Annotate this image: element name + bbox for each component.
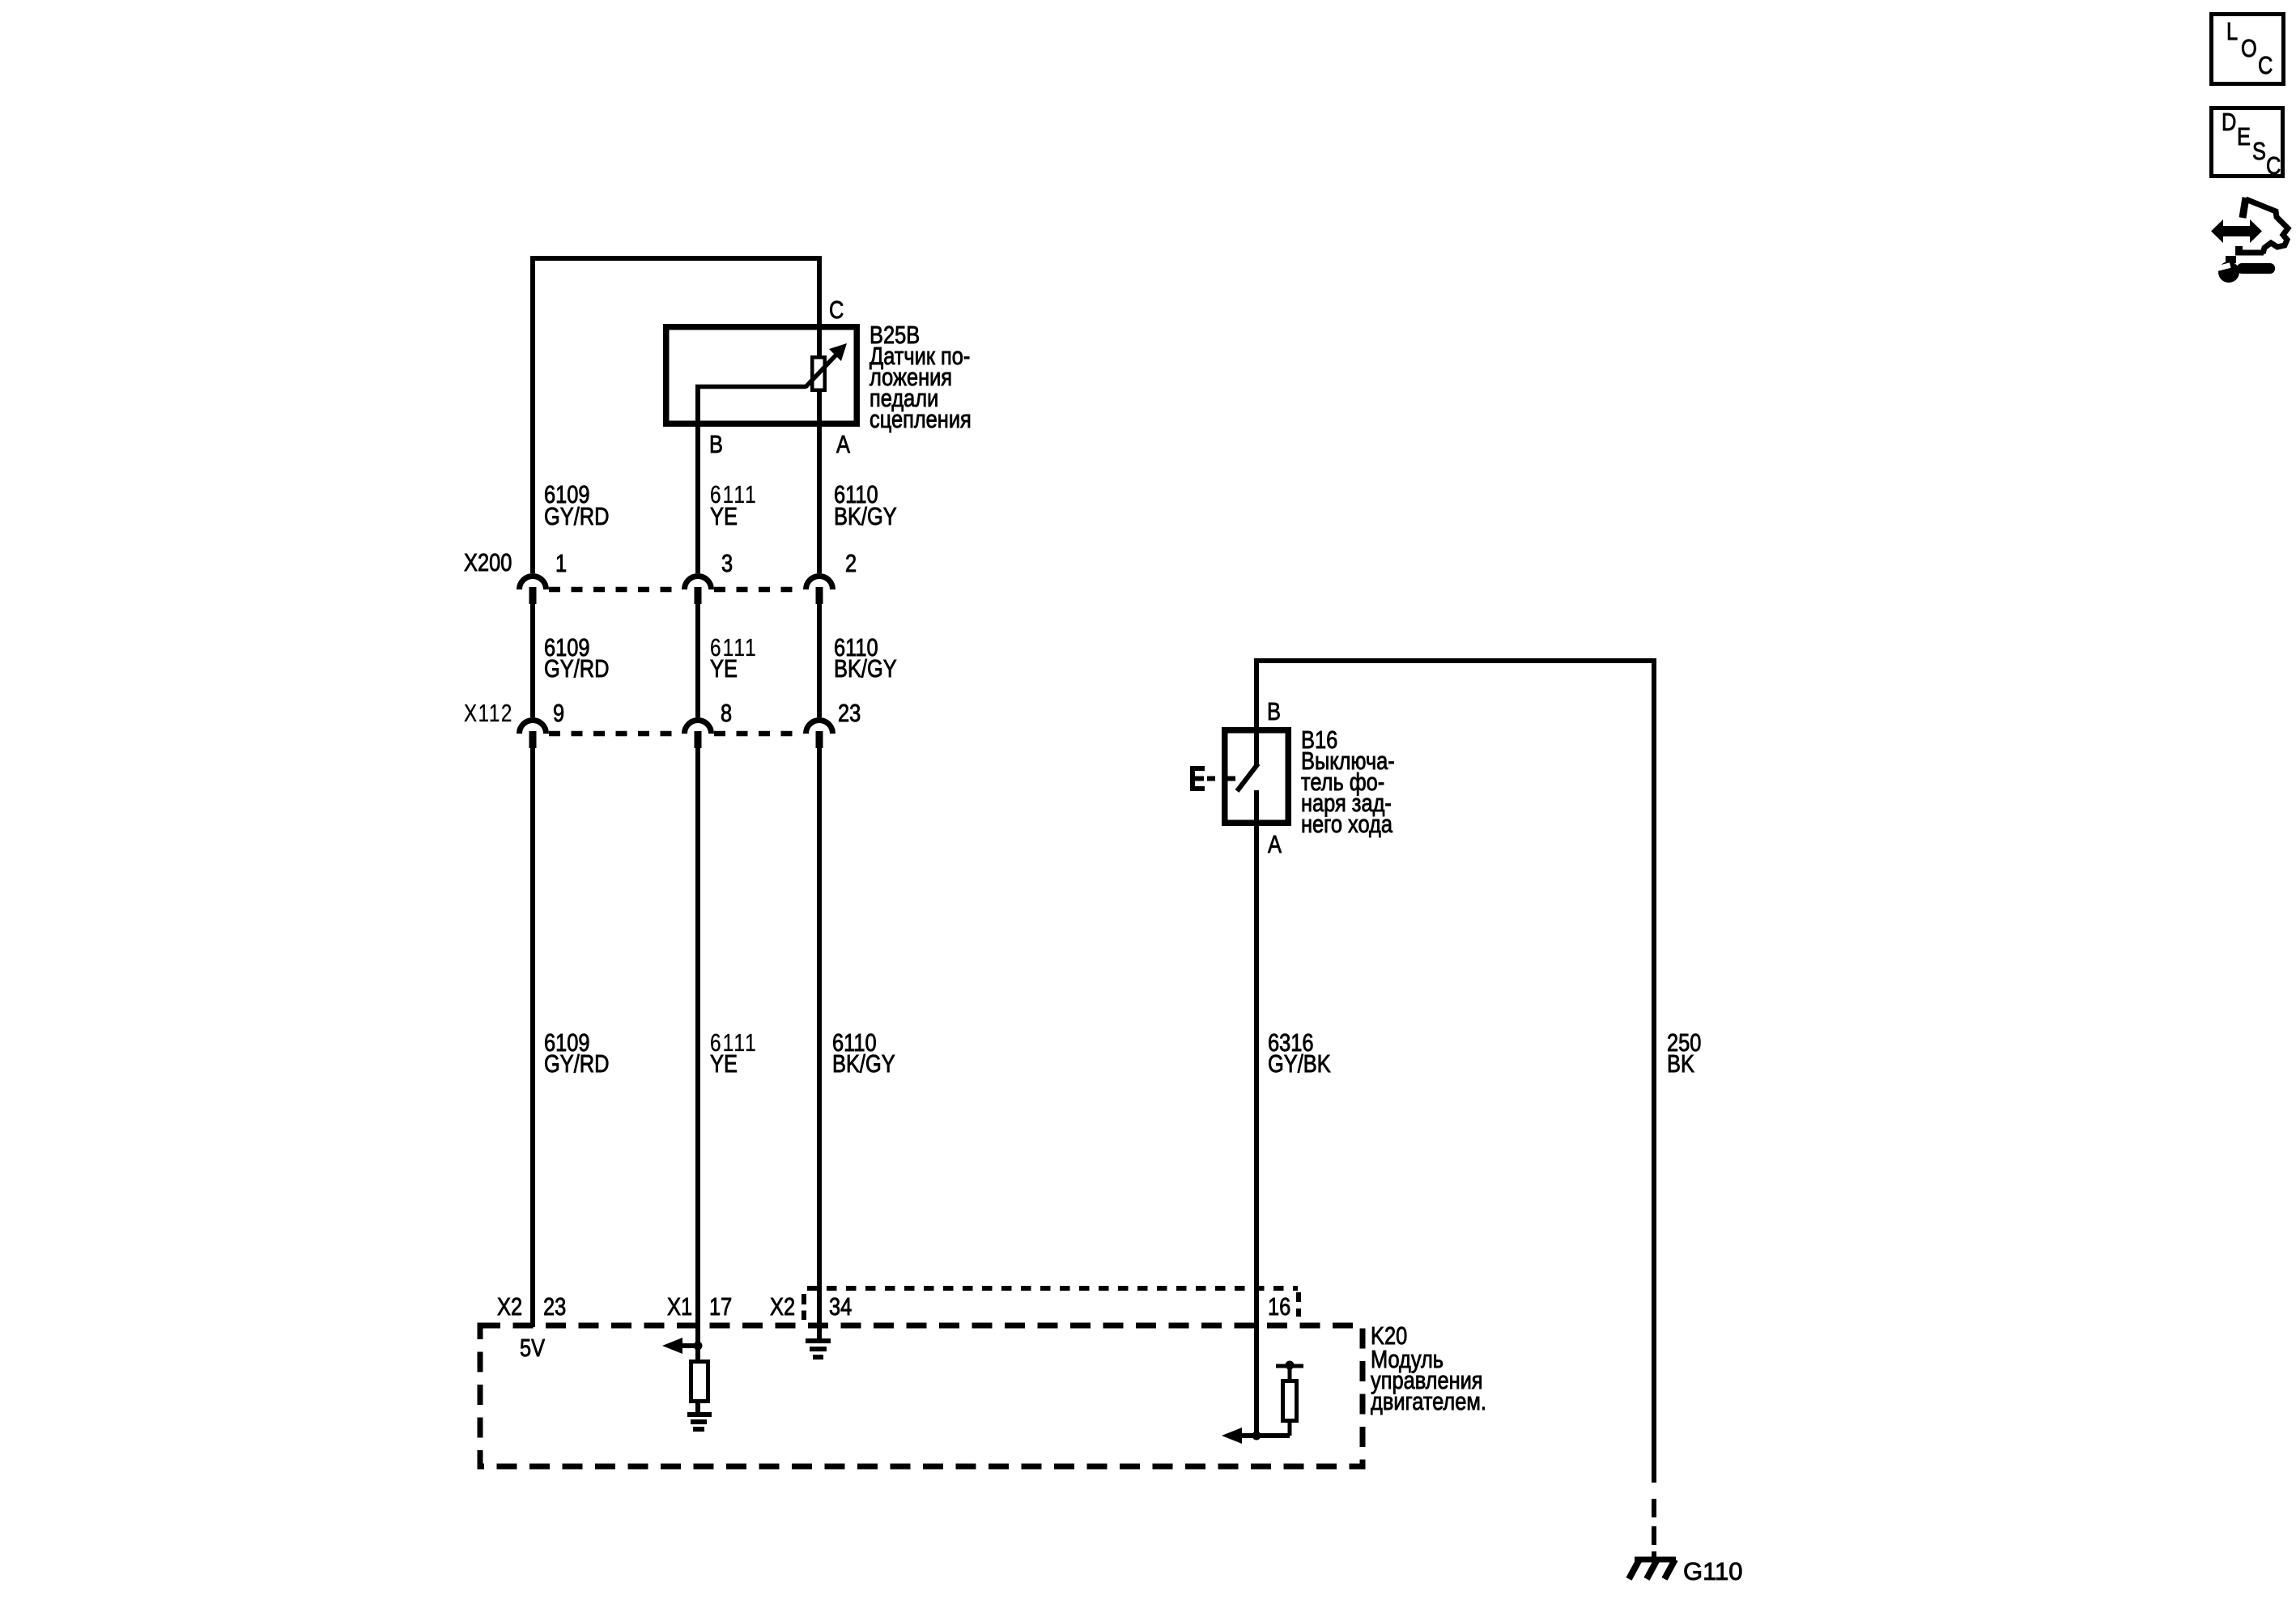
- svg-text:GY/RD: GY/RD: [544, 1050, 609, 1079]
- svg-text:YE: YE: [710, 503, 738, 531]
- svg-text:YE: YE: [710, 655, 738, 683]
- svg-text:него хода: него хода: [1301, 811, 1392, 839]
- svg-text:A: A: [836, 431, 850, 459]
- svg-text:двигателем.: двигателем.: [1371, 1388, 1486, 1416]
- svg-text:GY/RD: GY/RD: [544, 655, 609, 683]
- svg-text:D: D: [2222, 109, 2236, 137]
- svg-text:BK/GY: BK/GY: [834, 655, 897, 683]
- svg-text:2: 2: [845, 550, 857, 578]
- svg-text:C: C: [2266, 152, 2281, 181]
- svg-text:B: B: [1267, 698, 1281, 726]
- svg-text:G110: G110: [1683, 1557, 1743, 1585]
- svg-text:23: 23: [838, 700, 861, 728]
- svg-text:B: B: [709, 431, 723, 459]
- svg-text:23: 23: [543, 1293, 566, 1321]
- svg-text:X1: X1: [667, 1293, 692, 1321]
- svg-text:S: S: [2252, 138, 2266, 166]
- svg-text:BK/GY: BK/GY: [834, 503, 897, 531]
- svg-text:BK: BK: [1667, 1050, 1694, 1079]
- svg-text:L: L: [2226, 18, 2238, 46]
- svg-text:8: 8: [721, 700, 732, 728]
- svg-text:C: C: [2258, 52, 2273, 80]
- svg-text:BK/GY: BK/GY: [832, 1050, 895, 1079]
- svg-text:A: A: [1268, 831, 1282, 859]
- svg-text:YE: YE: [710, 1050, 738, 1079]
- svg-text:X2: X2: [497, 1293, 522, 1321]
- svg-text:GY/BK: GY/BK: [1268, 1050, 1331, 1079]
- svg-text:E: E: [2237, 123, 2251, 151]
- svg-text:9: 9: [553, 700, 564, 728]
- svg-text:3: 3: [721, 550, 733, 578]
- svg-text:17: 17: [709, 1293, 732, 1321]
- svg-text:X2: X2: [770, 1293, 795, 1321]
- svg-text:GY/RD: GY/RD: [544, 503, 609, 531]
- svg-text:34: 34: [829, 1293, 852, 1321]
- svg-text:C: C: [829, 296, 844, 325]
- svg-text:X200: X200: [464, 549, 512, 577]
- svg-text:16: 16: [1268, 1293, 1290, 1321]
- svg-text:5V: 5V: [520, 1334, 545, 1363]
- svg-text:O: O: [2241, 35, 2257, 63]
- svg-text:X112: X112: [464, 699, 513, 727]
- svg-text:сцепления: сцепления: [870, 406, 972, 434]
- svg-text:1: 1: [555, 550, 567, 578]
